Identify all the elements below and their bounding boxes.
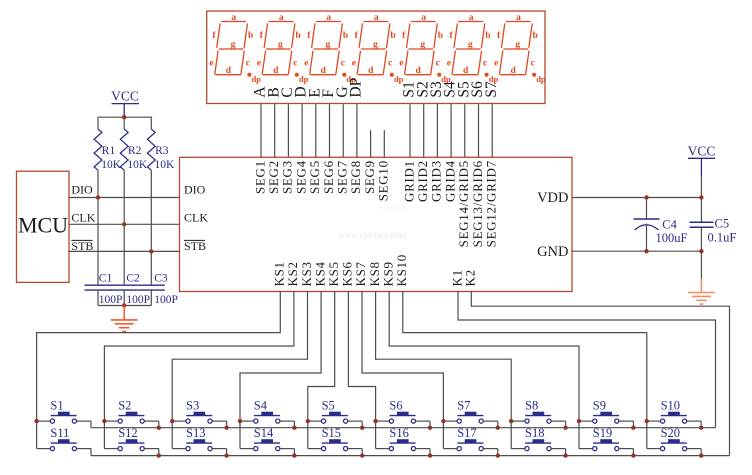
svg-text:S8: S8 bbox=[525, 399, 538, 413]
svg-text:c: c bbox=[483, 58, 487, 68]
wire to K2 bus bbox=[565, 449, 567, 456]
junction col 4 bbox=[238, 419, 242, 423]
svg-text:VDD: VDD bbox=[537, 190, 568, 206]
wire to K2 bus bbox=[293, 449, 295, 456]
7-seg digit 2 bbox=[262, 22, 295, 75]
pushbutton S11 bbox=[37, 448, 51, 450]
junction col 10 bbox=[645, 419, 649, 423]
wire to K1 bus bbox=[90, 421, 92, 428]
wire K2 bus row bbox=[91, 455, 730, 457]
svg-text:b: b bbox=[390, 31, 395, 41]
svg-text:R2: R2 bbox=[128, 145, 142, 157]
wire column drop bbox=[103, 421, 105, 449]
wire to K1 bus bbox=[158, 421, 160, 428]
svg-text:b: b bbox=[485, 31, 490, 41]
svg-text:g: g bbox=[373, 40, 378, 50]
svg-text:S5: S5 bbox=[322, 399, 335, 413]
junction K2 bus bbox=[563, 453, 567, 457]
wire column drop bbox=[171, 421, 173, 449]
svg-text:e: e bbox=[304, 58, 308, 68]
capacitor C1 bbox=[97, 198, 99, 286]
svg-text:SEG10: SEG10 bbox=[376, 160, 391, 201]
svg-text:C2: C2 bbox=[126, 273, 140, 285]
svg-text:100uF: 100uF bbox=[656, 231, 688, 245]
wires display segment pins to U1 SEG1-SEG8 bbox=[260, 104, 262, 157]
wire GND bbox=[572, 250, 701, 252]
svg-text:a: a bbox=[326, 13, 331, 23]
svg-text:www.elecfans.com: www.elecfans.com bbox=[338, 230, 406, 240]
pushbutton S5 bbox=[308, 420, 322, 422]
svg-text:S11: S11 bbox=[50, 426, 69, 440]
wire KS2 net bbox=[104, 292, 294, 422]
svg-text:c: c bbox=[436, 58, 440, 68]
svg-text:b: b bbox=[248, 31, 253, 41]
svg-text:MCU: MCU bbox=[18, 213, 68, 238]
junction bbox=[699, 195, 703, 199]
svg-text:a: a bbox=[421, 13, 426, 23]
junction col 6 bbox=[373, 419, 377, 423]
capacitor C5 bbox=[700, 198, 702, 223]
svg-text:K2: K2 bbox=[463, 269, 478, 286]
wire KS4 net bbox=[240, 292, 321, 422]
resistor R3 bbox=[150, 117, 152, 129]
junction col 7 bbox=[441, 419, 445, 423]
wire to K2 bus bbox=[632, 449, 634, 456]
wire to K1 bus bbox=[361, 421, 363, 428]
wire CLK bbox=[69, 223, 180, 225]
svg-text:VCC: VCC bbox=[111, 89, 139, 104]
svg-text:d: d bbox=[368, 66, 374, 76]
stub wires U1 SEG9 SEG10 bbox=[370, 130, 372, 157]
junction col 2 bbox=[102, 419, 106, 423]
wire to K2 bus bbox=[361, 449, 363, 456]
wire KS7 net bbox=[362, 292, 443, 422]
wire to K2 bus bbox=[700, 449, 702, 456]
svg-text:dp: dp bbox=[536, 74, 546, 84]
junction K2 bus bbox=[224, 453, 228, 457]
svg-text:a: a bbox=[469, 13, 474, 23]
pushbutton S18 bbox=[511, 448, 525, 450]
wire STB bbox=[69, 250, 180, 252]
wire VCC rail bbox=[98, 116, 152, 118]
capacitor C2 bbox=[123, 224, 125, 285]
svg-text:10K: 10K bbox=[155, 159, 176, 171]
svg-text:b: b bbox=[438, 31, 443, 41]
wire DIO bbox=[69, 197, 180, 199]
wire to K1 bus bbox=[497, 421, 499, 428]
svg-text:a: a bbox=[231, 13, 236, 23]
pushbutton S14 bbox=[240, 448, 254, 450]
svg-text:S6: S6 bbox=[389, 399, 402, 413]
wire column drop bbox=[239, 421, 241, 449]
svg-text:a: a bbox=[516, 13, 521, 23]
svg-text:e: e bbox=[447, 58, 451, 68]
driver IC U1 bbox=[180, 157, 573, 291]
7-seg digit 7 bbox=[499, 22, 532, 75]
wire KS6 net bbox=[348, 292, 375, 422]
svg-text:100P: 100P bbox=[99, 294, 123, 306]
svg-text:S4: S4 bbox=[254, 399, 268, 413]
junction K1 bus bbox=[563, 426, 567, 430]
svg-text:100P: 100P bbox=[154, 294, 178, 306]
junction K1 bus bbox=[360, 426, 364, 430]
svg-text:DP: DP bbox=[348, 78, 365, 98]
wire column drop bbox=[646, 421, 648, 449]
wire column drop bbox=[510, 421, 512, 449]
pushbutton S9 bbox=[579, 420, 593, 422]
junction bbox=[644, 249, 648, 253]
MCU block bbox=[17, 171, 70, 282]
junction K1 bus bbox=[157, 426, 161, 430]
display box DS1 bbox=[207, 11, 545, 104]
wire KS1 net bbox=[37, 292, 281, 422]
junction col 3 bbox=[170, 419, 174, 423]
wire to K2 bus bbox=[158, 449, 160, 456]
7-seg digit 5 bbox=[405, 22, 438, 75]
junction K2 bus bbox=[631, 453, 635, 457]
junction K2 bus bbox=[699, 453, 703, 457]
pushbutton S2 bbox=[104, 420, 118, 422]
wire KS10 net bbox=[403, 292, 647, 422]
svg-text:S1: S1 bbox=[50, 399, 63, 413]
svg-text:S10: S10 bbox=[661, 399, 680, 413]
wire VDD bbox=[572, 197, 701, 199]
wire KS9 net bbox=[389, 292, 579, 422]
svg-text:KS10: KS10 bbox=[394, 254, 409, 286]
junction bbox=[644, 195, 648, 199]
pushbutton S15 bbox=[308, 448, 322, 450]
svg-text:C3: C3 bbox=[154, 273, 168, 285]
junction col 1 bbox=[34, 419, 38, 423]
junction K1 bus bbox=[496, 426, 500, 430]
wire KS5 net bbox=[308, 292, 335, 422]
ground bbox=[700, 279, 702, 293]
pushbutton S3 bbox=[172, 420, 186, 422]
wire to K2 bus bbox=[497, 449, 499, 456]
pushbutton S17 bbox=[443, 448, 457, 450]
svg-text:dp: dp bbox=[252, 74, 262, 84]
wire to K1 bus bbox=[565, 421, 567, 428]
wires display grid pins to U1 GRID1-GRID7 bbox=[409, 104, 411, 157]
svg-text:b: b bbox=[533, 31, 538, 41]
svg-text:C4: C4 bbox=[662, 217, 677, 231]
svg-text:DIO: DIO bbox=[71, 182, 93, 196]
pushbutton S12 bbox=[104, 448, 118, 450]
junction K1 bus bbox=[631, 426, 635, 430]
svg-text:e: e bbox=[494, 58, 498, 68]
wire to K1 bus bbox=[293, 421, 295, 428]
wire column drop bbox=[36, 421, 38, 449]
junction bbox=[699, 249, 703, 253]
wire to K1 bus bbox=[632, 421, 634, 428]
svg-text:d: d bbox=[273, 66, 279, 76]
7-seg digit 1 bbox=[215, 22, 248, 75]
svg-text:C5: C5 bbox=[715, 216, 730, 230]
svg-text:b: b bbox=[295, 31, 300, 41]
svg-text:C1: C1 bbox=[99, 273, 113, 285]
svg-text:e: e bbox=[352, 58, 356, 68]
wire column drop bbox=[307, 421, 309, 449]
svg-text:a: a bbox=[374, 13, 379, 23]
svg-text:S7: S7 bbox=[457, 399, 470, 413]
pushbutton S7 bbox=[443, 420, 457, 422]
svg-text:e: e bbox=[399, 58, 403, 68]
junction K1 bus bbox=[224, 426, 228, 430]
wire KS3 net bbox=[172, 292, 307, 422]
svg-text:STB: STB bbox=[184, 239, 206, 253]
wire K2 net bbox=[471, 292, 729, 456]
svg-text:d: d bbox=[510, 66, 516, 76]
junction K2 bus bbox=[292, 453, 296, 457]
wire to K2 bus bbox=[90, 449, 92, 456]
pushbutton S10 bbox=[647, 420, 661, 422]
pushbutton S13 bbox=[172, 448, 186, 450]
svg-text:g: g bbox=[468, 40, 473, 50]
junction col 8 bbox=[509, 419, 513, 423]
junction col 5 bbox=[306, 419, 310, 423]
svg-text:d: d bbox=[226, 66, 232, 76]
svg-text:g: g bbox=[278, 40, 283, 50]
svg-text:g: g bbox=[231, 40, 236, 50]
svg-text:elecfans: elecfans bbox=[380, 202, 408, 212]
svg-text:c: c bbox=[293, 58, 297, 68]
pushbutton S8 bbox=[511, 420, 525, 422]
wire cap common bbox=[98, 305, 151, 307]
pushbutton S16 bbox=[376, 448, 390, 450]
wire to K1 bus bbox=[429, 421, 431, 428]
svg-text:c: c bbox=[530, 58, 534, 68]
junction K1 bus bbox=[699, 426, 703, 430]
wire column drop bbox=[442, 421, 444, 449]
svg-text:c: c bbox=[246, 58, 250, 68]
svg-text:10K: 10K bbox=[127, 159, 147, 171]
svg-text:c: c bbox=[341, 58, 345, 68]
resistor R2 bbox=[123, 117, 125, 129]
wire column drop bbox=[375, 421, 377, 449]
junction col 9 bbox=[577, 419, 581, 423]
svg-text:S7: S7 bbox=[483, 81, 500, 98]
capacitor C3 bbox=[150, 251, 152, 285]
wire column drop bbox=[578, 421, 580, 449]
capacitor C4 bbox=[646, 198, 648, 220]
svg-text:0.1uF: 0.1uF bbox=[708, 231, 737, 245]
junction CLK/R2 bbox=[122, 222, 126, 226]
svg-text:e: e bbox=[257, 58, 261, 68]
svg-text:e: e bbox=[209, 58, 213, 68]
svg-text:d: d bbox=[321, 66, 327, 76]
svg-text:CLK: CLK bbox=[184, 210, 208, 224]
pushbutton S20 bbox=[647, 448, 661, 450]
pushbutton S19 bbox=[579, 448, 593, 450]
svg-text:g: g bbox=[326, 40, 331, 50]
7-seg digit 4 bbox=[357, 22, 390, 75]
pushbutton S4 bbox=[240, 420, 254, 422]
svg-text:S2: S2 bbox=[118, 399, 131, 413]
svg-text:R3: R3 bbox=[155, 145, 169, 157]
wire to K2 bus bbox=[226, 449, 228, 456]
wire to K1 bus bbox=[700, 421, 702, 428]
svg-text:d: d bbox=[416, 66, 422, 76]
wire K1 net bbox=[458, 292, 716, 428]
junction bbox=[122, 303, 126, 307]
svg-text:S9: S9 bbox=[593, 399, 606, 413]
junction K2 bus bbox=[496, 453, 500, 457]
svg-text:R1: R1 bbox=[102, 145, 116, 157]
wire to K1 bus bbox=[226, 421, 228, 428]
svg-text:dp: dp bbox=[299, 74, 309, 84]
svg-text:100P: 100P bbox=[126, 294, 150, 306]
resistor R1 bbox=[97, 117, 99, 129]
junction K2 bus bbox=[157, 453, 161, 457]
wire to K2 bus bbox=[429, 449, 431, 456]
junction STB/R3 bbox=[149, 249, 153, 253]
junction K1 bus bbox=[428, 426, 432, 430]
ground bbox=[123, 306, 125, 320]
svg-text:DIO: DIO bbox=[184, 182, 206, 196]
svg-text:GND: GND bbox=[537, 244, 568, 260]
svg-text:g: g bbox=[420, 40, 425, 50]
7-seg digit 3 bbox=[310, 22, 343, 75]
svg-text:SEG12/GRID7: SEG12/GRID7 bbox=[484, 160, 499, 247]
svg-text:10K: 10K bbox=[101, 159, 122, 171]
7-seg digit 6 bbox=[452, 22, 485, 75]
pushbutton S1 bbox=[37, 420, 51, 422]
svg-text:d: d bbox=[463, 66, 469, 76]
junction K2 bus bbox=[360, 453, 364, 457]
junction K2 bus bbox=[428, 453, 432, 457]
svg-text:a: a bbox=[279, 13, 284, 23]
junction DIO/R1 bbox=[96, 195, 100, 199]
pushbutton S6 bbox=[376, 420, 390, 422]
wire K1 bus row bbox=[91, 427, 716, 429]
svg-text:b: b bbox=[343, 31, 348, 41]
svg-text:g: g bbox=[515, 40, 520, 50]
junction K1 bus bbox=[292, 426, 296, 430]
junction bbox=[122, 115, 126, 119]
svg-text:c: c bbox=[388, 58, 392, 68]
svg-text:S3: S3 bbox=[186, 399, 199, 413]
wire KS8 net bbox=[376, 292, 512, 422]
svg-text:VCC: VCC bbox=[688, 143, 716, 158]
svg-text:CLK: CLK bbox=[71, 210, 95, 224]
